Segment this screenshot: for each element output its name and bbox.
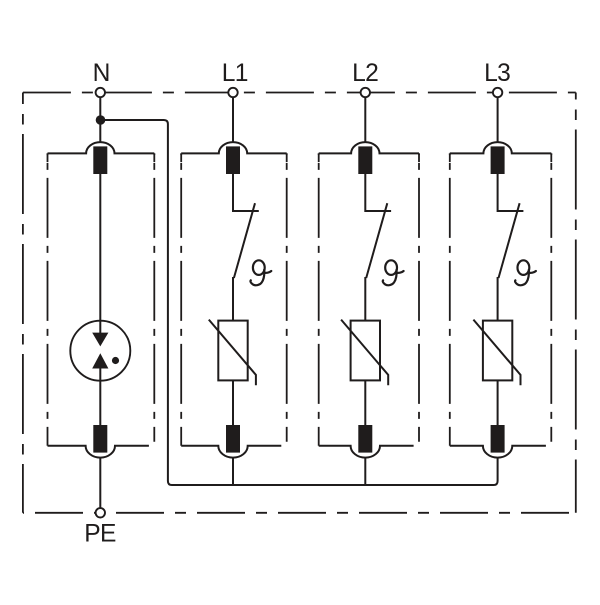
terminal circle L2	[361, 88, 370, 97]
wire spark-gap top lead	[99, 174, 101, 333]
wire varistor L1 lower lead	[232, 380, 234, 425]
module box 2 (L1) top edge with terminal bump	[181, 142, 287, 153]
module box 3 bottom edge with terminal bump	[319, 446, 414, 458]
terminal circle L1	[228, 88, 237, 97]
outer enclosure dash-dot border right	[575, 93, 577, 513]
outer enclosure dash-dot border left	[22, 93, 24, 513]
wire PE lead	[99, 457, 101, 508]
module box 4 (L3) top edge with terminal bump	[450, 142, 552, 153]
module box 4 bottom edge with terminal bump	[450, 446, 546, 458]
wire varistor L3 lower lead	[497, 380, 499, 425]
wire L1 terminal drop	[232, 97, 234, 142]
junction dot at N	[96, 115, 106, 125]
terminal block rect module 3 top	[358, 146, 372, 174]
module box corner stubs	[48, 153, 552, 162]
terminal block rect module 1 top	[93, 146, 107, 174]
module box 4 left dashed edge	[449, 153, 451, 445]
module box 3 (L2) top edge with terminal bump	[319, 142, 419, 153]
module box 2 left dashed edge	[180, 153, 182, 445]
module box 1 bottom edge with terminal bump	[48, 446, 149, 458]
varistor body L3	[483, 321, 512, 381]
outer enclosure dash-dot border bottom	[23, 512, 576, 514]
spark gap upper electrode triangle	[92, 333, 108, 347]
module box 4 right dashed edge	[550, 153, 552, 441]
module box 3 left dashed edge	[318, 153, 320, 445]
varistor body L2	[351, 321, 380, 381]
outer enclosure dash-dot border top	[23, 92, 576, 94]
thermal disconnector switch L2	[365, 174, 391, 321]
wire L2 terminal drop	[364, 97, 366, 142]
terminal block rect module 2 bottom	[226, 425, 240, 453]
svg-text:L3: L3	[484, 60, 510, 87]
module box 3 right dashed edge	[418, 153, 420, 441]
varistor diagonal stroke L1	[209, 320, 256, 386]
terminal circle N	[96, 88, 105, 97]
varistor diagonal stroke L3	[473, 320, 520, 386]
terminal block rect module 3 bottom	[358, 425, 372, 453]
spark gap (N-PE gas discharge tube) circle	[70, 321, 130, 381]
spark gap lower electrode triangle	[92, 353, 108, 368]
module box 1 left dashed edge	[47, 153, 49, 445]
terminal circle L3	[493, 88, 502, 97]
module box 1 (N-PE) top edge with terminal bump	[48, 142, 155, 153]
wire L2 bottom terminal to bus	[364, 457, 366, 485]
svg-text:L1: L1	[222, 60, 248, 87]
wire L3 terminal drop	[497, 97, 499, 142]
varistor body L1	[218, 321, 247, 381]
terminal block rect module 1 bottom	[93, 425, 107, 453]
terminal block rect module 4 top	[491, 146, 505, 174]
wire N to collector bus down to varistor common and L3 drop	[101, 120, 498, 485]
thermal disconnector switch L1	[233, 174, 259, 321]
thermal release theta symbol L2	[383, 260, 404, 285]
wire spark-gap bottom lead	[99, 368, 101, 425]
terminal block rect module 4 bottom	[491, 425, 505, 453]
svg-text:L2: L2	[352, 60, 378, 87]
module box 2 right dashed edge	[286, 153, 288, 441]
terminal circle PE	[96, 508, 105, 517]
module box 2 bottom edge with terminal bump	[181, 446, 281, 458]
svg-text:N: N	[93, 60, 111, 87]
wire varistor L2 lower lead	[364, 380, 366, 425]
terminal block rect module 2 top	[226, 146, 240, 174]
varistor diagonal stroke L2	[341, 320, 388, 386]
wire L1 bottom terminal to bus	[232, 457, 234, 485]
svg-text:PE: PE	[84, 521, 116, 548]
spark gap gas-filled indicator dot	[112, 357, 119, 364]
wire N terminal drop	[99, 97, 101, 142]
thermal disconnector switch L3	[498, 174, 524, 321]
thermal release theta symbol L3	[515, 260, 536, 285]
module box 1 right dashed edge	[153, 153, 155, 441]
thermal release theta symbol L1	[250, 260, 271, 285]
